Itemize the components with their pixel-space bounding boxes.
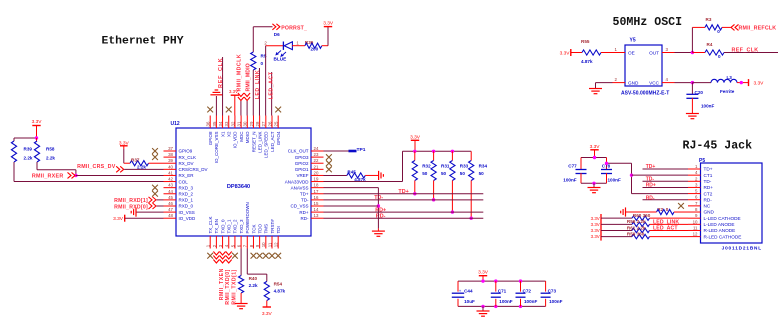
svg-text:R3: R3 xyxy=(706,17,712,22)
svg-text:13: 13 xyxy=(314,213,319,218)
svg-text:RJ-45 Jack: RJ-45 Jack xyxy=(683,140,753,153)
svg-text:RXD_3: RXD_3 xyxy=(179,185,194,190)
svg-text:TXD_1: TXD_1 xyxy=(227,219,232,234)
svg-text:C20: C20 xyxy=(695,90,704,95)
svg-text:CD_VSS: CD_VSS xyxy=(290,204,308,209)
ground (cap bank) xyxy=(482,306,484,311)
svg-text:RMII_CRS_DV: RMII_CRS_DV xyxy=(77,164,116,170)
svg-text:Y5: Y5 xyxy=(630,38,636,44)
wire CD_VSS pin 15 xyxy=(324,205,379,207)
junction xyxy=(413,192,416,195)
svg-text:L-LED CATHODE: L-LED CATHODE xyxy=(704,216,741,221)
wire TD- (pin 16) xyxy=(324,199,484,201)
junction L3 xyxy=(740,81,743,84)
svg-text:RD+: RD+ xyxy=(646,183,656,189)
svg-text:GPIO4: GPIO4 xyxy=(276,131,281,145)
U12 left pin 44 RXD_2 xyxy=(164,193,177,195)
P5 pin 10 L-LED ANODE xyxy=(688,223,701,225)
svg-text:R55: R55 xyxy=(581,39,590,44)
junction VCC xyxy=(691,81,694,84)
junction CT1 xyxy=(630,173,633,176)
svg-text:GPIO8: GPIO8 xyxy=(208,131,213,145)
svg-text:BLUE: BLUE xyxy=(274,56,287,61)
wire REF_CLK to X1 pin 34 xyxy=(222,57,224,116)
no-connect X P5 pin 7 NC xyxy=(678,203,684,209)
junction RXER node xyxy=(74,174,77,177)
svg-text:TDO: TDO xyxy=(257,224,262,234)
svg-text:U12: U12 xyxy=(171,121,180,127)
svg-text:12: 12 xyxy=(274,242,279,247)
svg-text:POWERDOWN: POWERDOWN xyxy=(245,202,250,233)
port RMII_TXEN (pin 2) xyxy=(213,256,219,264)
svg-text:Ferrite: Ferrite xyxy=(720,89,735,94)
svg-text:46: 46 xyxy=(168,201,173,206)
svg-text:26: 26 xyxy=(267,121,272,126)
resistor R5 0 xyxy=(251,52,256,70)
svg-text:200: 200 xyxy=(311,47,319,52)
no-connect X pin 22 xyxy=(326,160,332,166)
Y5 pin 3 OUT xyxy=(662,52,675,54)
P5 pin 11 R-LED ANODE xyxy=(688,229,701,231)
svg-text:TDI: TDI xyxy=(276,226,281,233)
svg-text:DP83640: DP83640 xyxy=(227,184,250,190)
svg-text:30: 30 xyxy=(243,121,248,126)
svg-text:CLK_OUT: CLK_OUT xyxy=(288,149,309,154)
junction xyxy=(519,279,522,282)
wire VREF pin 20 to R45 xyxy=(324,174,347,176)
svg-text:0: 0 xyxy=(718,54,721,59)
wire ANAVSS pin 18 to ground xyxy=(324,187,379,189)
resistor R31 50 xyxy=(433,151,435,160)
svg-text:27: 27 xyxy=(261,121,266,126)
svg-text:VREF: VREF xyxy=(296,173,308,178)
capacitor C71 100nF xyxy=(495,281,497,292)
svg-text:C73: C73 xyxy=(548,289,557,294)
U12 right pin 16 TD- xyxy=(311,199,324,201)
svg-text:2.2k: 2.2k xyxy=(249,283,258,288)
U12 bottom pin 3 TXD_0 xyxy=(222,236,224,249)
U12 right pin 19 ANA33VDD xyxy=(311,181,324,183)
U12 left pin 39 RX_DV xyxy=(164,162,177,164)
svg-text:0: 0 xyxy=(717,29,720,34)
U12 bottom pin 11 TRST# xyxy=(271,236,273,249)
wire C77/C78 top rail xyxy=(581,157,607,159)
svg-text:ANA33VDD: ANA33VDD xyxy=(285,179,310,184)
P5 pin 2 TD- xyxy=(688,180,701,182)
svg-text:X2: X2 xyxy=(227,131,232,137)
svg-text:RD+: RD+ xyxy=(375,207,386,213)
U12 bottom pin 1 TX_CLK xyxy=(209,236,211,249)
svg-text:38: 38 xyxy=(168,152,173,157)
U12 left pin 41 RX_ER xyxy=(164,174,177,176)
U12 top pin 29 RESET_N xyxy=(252,116,254,129)
svg-text:10: 10 xyxy=(261,242,266,247)
resistor R34 50 xyxy=(470,151,472,160)
U12 top pin 26 LED_ACT xyxy=(271,116,273,129)
svg-text:J0011D21BNL: J0011D21BNL xyxy=(722,246,762,251)
svg-text:CT2: CT2 xyxy=(704,191,713,196)
U12 right pin 20 VREF xyxy=(311,174,324,176)
svg-text:OUT: OUT xyxy=(649,50,659,55)
wire C77/C78 bottom rail xyxy=(581,182,607,184)
svg-text:RD+: RD+ xyxy=(299,210,308,215)
svg-text:+: + xyxy=(459,288,462,293)
svg-text:16: 16 xyxy=(314,195,319,200)
svg-text:IO_CORE_VSS: IO_CORE_VSS xyxy=(214,132,219,164)
svg-text:44: 44 xyxy=(168,189,173,194)
svg-text:RMII_RXD[0]: RMII_RXD[0] xyxy=(114,204,148,210)
U12 right pin 23 GPIO3 xyxy=(311,156,324,158)
svg-text:C77: C77 xyxy=(568,163,577,168)
svg-text:RD-: RD- xyxy=(704,197,713,202)
wire R5 to RESET_N pin 29 xyxy=(252,70,254,116)
op-amp U12 DP83640 PHY body xyxy=(176,128,311,236)
svg-text:37: 37 xyxy=(168,146,173,151)
svg-text:11: 11 xyxy=(693,225,698,230)
no-connect X bottom pin 8 xyxy=(251,253,257,259)
svg-text:R61 2.2k: R61 2.2k xyxy=(627,225,646,230)
junction CD_VSS xyxy=(377,204,380,207)
junction xyxy=(451,210,454,213)
svg-text:RMII_TXEN: RMII_TXEN xyxy=(219,268,225,300)
wire cap bank bottom rail xyxy=(458,305,546,307)
svg-text:15: 15 xyxy=(314,201,319,206)
P5 pin 1 TD+ xyxy=(688,168,701,170)
svg-text:50MHz OSCI: 50MHz OSCI xyxy=(613,16,683,29)
capacitor C20 100nF xyxy=(691,83,693,94)
wire PORRST_ to R5 xyxy=(252,27,254,52)
P5 pin 5 CT2 xyxy=(688,193,701,195)
U12 top pin 25 GPIO4 xyxy=(277,116,279,129)
svg-text:R54: R54 xyxy=(274,282,283,287)
svg-text:R34: R34 xyxy=(479,164,488,169)
svg-text:R56 2.2k: R56 2.2k xyxy=(627,219,646,224)
svg-text:ANAVSS: ANAVSS xyxy=(291,185,309,190)
P5 pin 9 L-LED CATHODE xyxy=(688,217,701,219)
svg-text:RX_ER: RX_ER xyxy=(179,173,195,178)
ground (ANAVSS/CD_VSS) xyxy=(377,228,379,231)
svg-text:TD+: TD+ xyxy=(704,167,713,172)
junction xyxy=(35,136,38,139)
svg-text:R-LED CATHODE: R-LED CATHODE xyxy=(704,234,742,239)
svg-text:50: 50 xyxy=(422,171,428,176)
svg-text:41: 41 xyxy=(168,170,173,175)
svg-text:3.3V: 3.3V xyxy=(591,234,600,239)
svg-text:GPIO3: GPIO3 xyxy=(295,155,309,160)
svg-text:3.3V: 3.3V xyxy=(410,134,421,140)
svg-text:CT1: CT1 xyxy=(704,173,713,178)
no-connect X bottom pin 1 xyxy=(207,253,213,259)
svg-text:28: 28 xyxy=(255,121,260,126)
svg-text:TCK: TCK xyxy=(251,225,256,234)
svg-text:TXD_2: TXD_2 xyxy=(233,219,238,234)
ground (R2, pointing left) xyxy=(625,207,627,216)
junction xyxy=(432,150,435,153)
no-connect X pin 33 xyxy=(226,107,232,113)
junction xyxy=(451,150,454,153)
wire R58 to RX_ER node xyxy=(36,162,38,170)
port RMII_MDCLK xyxy=(238,93,244,101)
svg-text:TX_EN: TX_EN xyxy=(214,219,219,234)
P5 pin 7 NC xyxy=(688,205,701,207)
junction xyxy=(470,216,473,219)
svg-text:TD-: TD- xyxy=(301,198,309,203)
svg-text:RXD_0: RXD_0 xyxy=(179,204,194,209)
U12 right pin 24 CLK_OUT xyxy=(311,150,324,152)
capacitor C77 100nF xyxy=(580,158,582,170)
U12 right pin 13 RD- xyxy=(311,217,324,219)
svg-text:34: 34 xyxy=(218,121,223,126)
svg-text:REF_CLK: REF_CLK xyxy=(732,48,759,54)
Y5 pin 4 VCC xyxy=(662,82,675,84)
svg-text:39: 39 xyxy=(168,158,173,163)
no-connect X bottom pin 5 xyxy=(232,253,238,259)
no-connect X pin 23 xyxy=(326,154,332,160)
Y5 pin 2 GND xyxy=(613,82,626,84)
U12 left pin 42 COL xyxy=(164,181,177,183)
resistor R54 4.87k xyxy=(264,281,269,300)
U12 bottom pin 2 TX_EN xyxy=(215,236,217,249)
svg-text:C44: C44 xyxy=(464,289,473,294)
wire CT feed from C78 node xyxy=(607,162,632,164)
svg-text:100nF: 100nF xyxy=(701,103,714,108)
oscillator Y5 body xyxy=(625,45,662,86)
port RMII_MDIO xyxy=(244,93,250,101)
svg-text:33: 33 xyxy=(224,121,229,126)
junction xyxy=(481,305,484,308)
junction C78/CT tap xyxy=(605,162,608,165)
svg-text:11: 11 xyxy=(267,242,272,247)
ground (IO_VSS pin 47) xyxy=(136,211,164,213)
svg-text:4.87k: 4.87k xyxy=(581,59,593,64)
ground (Y5 GND) xyxy=(596,82,613,84)
svg-text:50: 50 xyxy=(441,171,447,176)
no-connect X bottom pin 12 xyxy=(275,253,281,259)
svg-text:TP1: TP1 xyxy=(357,147,366,153)
wire TD+ to P5 pin 1 xyxy=(643,168,689,170)
capacitor C78 100nF xyxy=(606,158,608,170)
svg-text:40: 40 xyxy=(168,164,173,169)
U12 right pin 18 ANAVSS xyxy=(311,187,324,189)
svg-text:3.3V: 3.3V xyxy=(591,228,600,233)
svg-text:P5: P5 xyxy=(699,158,705,164)
wire POWERDOWN pin 7 to R54 xyxy=(246,249,248,275)
svg-text:R4: R4 xyxy=(707,42,713,47)
svg-text:TX_CLK: TX_CLK xyxy=(208,216,213,233)
svg-text:RD-: RD- xyxy=(301,216,309,221)
svg-text:48: 48 xyxy=(168,213,173,218)
svg-text:R58: R58 xyxy=(46,147,55,152)
junction OUT xyxy=(691,51,694,54)
svg-text:RMII_TXD[1]: RMII_TXD[1] xyxy=(231,269,237,305)
U12 left pin 43 RXD_3 xyxy=(164,187,177,189)
svg-text:20: 20 xyxy=(314,170,319,175)
svg-text:22: 22 xyxy=(314,158,319,163)
svg-text:43: 43 xyxy=(168,183,173,188)
capacitor C44 10uF xyxy=(457,281,459,292)
svg-text:C71: C71 xyxy=(498,289,507,294)
resistor R40 2.2k xyxy=(239,276,244,294)
svg-text:3.3V: 3.3V xyxy=(323,20,334,26)
wire TXD_3 pin 6 to R40 xyxy=(240,249,242,276)
resistor R37 2.2k xyxy=(130,161,149,166)
resistor R33 50 xyxy=(451,151,453,160)
wire TD+ (pin 17) xyxy=(324,193,484,195)
svg-text:RXD_2: RXD_2 xyxy=(179,191,194,196)
resistor R39 2.2k xyxy=(11,141,16,162)
svg-text:LED_LINK: LED_LINK xyxy=(257,132,262,153)
svg-text:COL: COL xyxy=(179,179,189,184)
U12 top pin 27 LED_SPEED xyxy=(265,116,267,129)
no-connect X bottom pin 11 xyxy=(269,253,275,259)
svg-text:LED_LINK: LED_LINK xyxy=(653,219,679,225)
svg-text:OE: OE xyxy=(628,50,635,55)
svg-text:100nF: 100nF xyxy=(499,299,512,304)
svg-text:14: 14 xyxy=(314,207,319,212)
svg-text:RMII_MDCLK: RMII_MDCLK xyxy=(237,54,243,92)
svg-text:100nF: 100nF xyxy=(549,299,562,304)
svg-text:PORRST_: PORRST_ xyxy=(281,25,307,31)
svg-text:LED_ACT: LED_ACT xyxy=(270,131,275,152)
junction xyxy=(432,198,435,201)
svg-text:VCC: VCC xyxy=(649,81,660,86)
P5 pin 3 RD+ xyxy=(688,186,701,188)
junction xyxy=(593,156,596,159)
power 3.3V (L3, pointing right) xyxy=(748,79,750,86)
svg-text:3.3V: 3.3V xyxy=(113,216,124,222)
svg-text:R33: R33 xyxy=(460,164,469,169)
svg-text:3.3V: 3.3V xyxy=(262,311,273,317)
svg-text:ASV-50.000MHZ-E-T: ASV-50.000MHZ-E-T xyxy=(621,90,669,96)
svg-text:RMII_RXER: RMII_RXER xyxy=(32,174,64,180)
U12 bottom pin 6 TXD_3 xyxy=(240,236,242,249)
power 3.3V (R36) xyxy=(322,45,328,47)
port RMII_REFCLK xyxy=(731,24,739,30)
junction xyxy=(481,279,484,282)
port RMII_TXD[0] (pin 3) xyxy=(220,256,226,264)
wire VCC node xyxy=(675,82,693,84)
svg-text:24: 24 xyxy=(314,146,319,151)
Y5 pin 1 OE xyxy=(613,52,626,54)
svg-text:RX_CLK: RX_CLK xyxy=(179,155,197,160)
no-connect X pin 44 xyxy=(152,191,158,197)
svg-text:R40: R40 xyxy=(249,276,258,281)
wire MDC pin 31 xyxy=(240,101,242,116)
svg-text:NC: NC xyxy=(704,204,711,209)
svg-text:50: 50 xyxy=(460,171,466,176)
svg-text:R37: R37 xyxy=(131,158,140,163)
ground (IO_CORE_VSS pin 35, flipped) xyxy=(215,96,217,116)
U12 top pin 36 GPIO8 xyxy=(209,116,211,129)
no-connect X bottom pin 9 xyxy=(257,253,263,259)
U12 top pin 34 X1 xyxy=(222,116,224,129)
svg-text:MDC: MDC xyxy=(239,131,244,142)
svg-text:RMII_RXD[1]: RMII_RXD[1] xyxy=(114,198,148,204)
power 3.3V (R54, pointing down) xyxy=(266,301,268,308)
U12 bottom pin 4 TXD_1 xyxy=(228,236,230,249)
wire TD- to P5 pin 2 xyxy=(643,180,689,182)
svg-text:3.3V: 3.3V xyxy=(591,222,600,227)
U12 bottom pin 7 POWERDOWN xyxy=(246,236,248,249)
svg-text:100nF: 100nF xyxy=(608,178,621,183)
svg-text:19: 19 xyxy=(314,177,319,182)
P5 pin 6 RD- xyxy=(688,199,701,201)
svg-text:2.2k: 2.2k xyxy=(46,155,55,160)
ground (R40) xyxy=(235,303,248,305)
svg-text:10uF: 10uF xyxy=(464,299,475,304)
svg-text:2.2k: 2.2k xyxy=(24,155,33,160)
U12 bottom pin 8 TCK xyxy=(252,236,254,249)
P5 pin 12 R-LED CATHODE xyxy=(688,236,701,238)
ground (C20) xyxy=(686,113,699,115)
svg-text:R32: R32 xyxy=(422,164,431,169)
svg-text:RMII_MDIO: RMII_MDIO xyxy=(246,63,252,91)
wire CT1 to P5 pin 4 xyxy=(632,174,689,176)
svg-text:3.3V: 3.3V xyxy=(478,270,489,276)
svg-text:CRS/CRS_DV: CRS/CRS_DV xyxy=(179,167,208,172)
svg-text:100nF: 100nF xyxy=(524,299,537,304)
svg-text:45: 45 xyxy=(168,195,173,200)
U12 top pin 32 IO_VDD xyxy=(234,116,236,129)
U12 right pin 15 CD_VSS xyxy=(311,205,324,207)
no-connect X bottom pin 10 xyxy=(263,253,269,259)
connector P5 body xyxy=(701,163,763,243)
junction xyxy=(592,182,595,185)
resistor R4 0 xyxy=(692,52,705,54)
svg-text:GPIO9: GPIO9 xyxy=(179,149,193,154)
wire OUT node xyxy=(675,52,693,54)
P5 pin 8 GND xyxy=(688,211,701,213)
svg-text:RESET_N: RESET_N xyxy=(251,132,256,153)
svg-text:TRST#: TRST# xyxy=(270,219,275,234)
svg-text:RD-: RD- xyxy=(646,196,655,202)
svg-text:TD+: TD+ xyxy=(646,164,656,170)
ground (C77/C78) xyxy=(593,183,595,187)
wire RD- (pin 13) xyxy=(324,217,484,219)
svg-text:LED_LINK: LED_LINK xyxy=(255,70,261,99)
svg-text:21: 21 xyxy=(314,164,319,169)
U12 top pin 30 MDIO xyxy=(246,116,248,129)
svg-text:R31: R31 xyxy=(441,164,450,169)
svg-text:4.87k: 4.87k xyxy=(274,289,286,294)
svg-text:GND: GND xyxy=(628,81,639,86)
U12 bottom pin 5 TXD_2 xyxy=(234,236,236,249)
wire R39 to COL pin 42 xyxy=(13,162,15,182)
svg-text:18: 18 xyxy=(314,183,319,188)
ground (R45, pointing right) xyxy=(378,171,380,180)
svg-text:25: 25 xyxy=(274,121,279,126)
port PORRST_ xyxy=(272,24,280,30)
capacitor C73 100nF xyxy=(545,281,547,292)
svg-text:50: 50 xyxy=(479,171,485,176)
svg-text:12: 12 xyxy=(693,232,698,237)
wire MDIO pin 30 xyxy=(246,101,248,116)
svg-text:3.3V: 3.3V xyxy=(754,81,765,87)
svg-text:100nF: 100nF xyxy=(563,178,576,183)
wire RMII_CRS_DV to pin 40 xyxy=(124,168,163,170)
U12 top pin 33 X2 xyxy=(228,116,230,129)
wire 3.3V to R39/R58 tops xyxy=(14,137,37,139)
svg-text:10: 10 xyxy=(693,219,698,224)
no-connect X pin 25 xyxy=(275,107,281,113)
U12 right pin 14 RD+ xyxy=(311,211,324,213)
svg-text:GPIO1: GPIO1 xyxy=(295,167,309,172)
svg-text:R59 360: R59 360 xyxy=(627,231,645,236)
capacitor C72 100nF xyxy=(520,281,522,292)
no-connect X pin 43 xyxy=(152,185,158,191)
svg-text:29: 29 xyxy=(249,121,254,126)
U12 left pin 46 RXD_0 xyxy=(164,205,177,207)
